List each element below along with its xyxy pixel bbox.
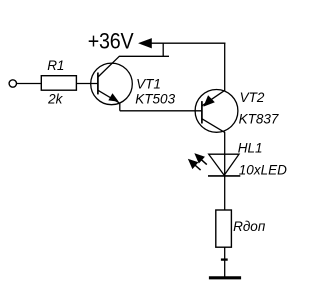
transistor VT1 (NPN KT503)	[91, 56, 133, 111]
svg-text:VT2: VT2	[240, 90, 265, 105]
resistor R1	[41, 76, 76, 91]
wire: riser to +36V rail	[162, 43, 164, 57]
wire: input terminal to R1	[17, 83, 42, 85]
svg-text:VT1: VT1	[136, 76, 161, 91]
power arrow	[139, 39, 152, 48]
svg-text:2k: 2k	[47, 92, 64, 107]
resistor Rdop	[216, 210, 232, 247]
svg-text:KT503: KT503	[135, 92, 175, 107]
ground	[209, 276, 241, 279]
LED HL1	[208, 154, 240, 176]
light arrow 1	[195, 154, 207, 165]
svg-text:Rдоп: Rдоп	[233, 219, 266, 234]
wire: VT2 collector to HL1	[224, 132, 226, 176]
svg-text:10xLED: 10xLED	[239, 162, 287, 177]
wire: VT1 emitter to VT2 base	[120, 110, 202, 112]
svg-text:R1: R1	[47, 58, 64, 73]
light arrow 2	[188, 159, 200, 170]
svg-text:HL1: HL1	[238, 141, 263, 156]
wire: VT1 collector horizontal run	[119, 55, 169, 57]
input terminal	[9, 80, 16, 87]
wire: rail down to VT2 emitter	[224, 43, 226, 91]
wire: +36V rail	[150, 42, 225, 44]
wire: HL1 to Rdop	[224, 176, 226, 211]
wire: R1 to VT1 base	[76, 83, 98, 85]
svg-text:KT837: KT837	[239, 111, 279, 126]
transistor VT2 (PNP KT837)	[195, 90, 238, 133]
wire: Rdop to ground	[224, 247, 226, 277]
junction tick	[221, 258, 228, 260]
svg-text:+36V: +36V	[88, 29, 134, 53]
